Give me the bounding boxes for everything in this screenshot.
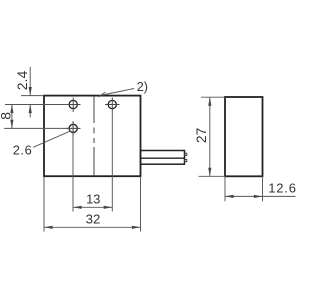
svg-text:2.6: 2.6 <box>13 143 33 158</box>
cable end bump upper <box>185 153 187 155</box>
dashed centerline <box>93 96 95 176</box>
dim 8 arrow down <box>10 120 13 129</box>
extension line row1 <box>5 104 69 106</box>
side view body outline <box>225 97 263 176</box>
dim 13 arrow right <box>104 206 113 209</box>
extension line body left bottom <box>43 176 45 231</box>
dim 32 arrow left <box>44 226 53 229</box>
extension line column1 lower <box>72 121 74 211</box>
hole circle C1 <box>69 100 77 108</box>
extension line body right bottom <box>140 176 142 231</box>
C2 cross <box>66 121 81 135</box>
extension line side bottom-left <box>224 176 226 201</box>
dim 2.4 arrow down <box>29 87 32 96</box>
dim 32 line <box>44 226 141 228</box>
callout 2) leader <box>99 89 135 98</box>
C3 cross <box>105 98 120 112</box>
svg-text:12.6: 12.6 <box>268 181 297 196</box>
dim 8 arrow up <box>10 105 13 114</box>
front view body outline <box>44 96 141 177</box>
dim 8 line <box>11 105 13 129</box>
extension line row2 <box>4 127 69 129</box>
extension line side bottom-right <box>262 176 264 201</box>
svg-text:2): 2) <box>137 80 148 94</box>
dim 2.4 line <box>29 67 31 118</box>
dim 13 arrow left <box>73 206 82 209</box>
dim 12.6 arrow left <box>225 195 234 198</box>
C1 cross <box>66 98 81 113</box>
hole circle C2 <box>69 124 77 132</box>
extension line column2 <box>111 112 113 212</box>
dim 13 line <box>73 206 112 208</box>
cable end bump lower <box>185 159 187 161</box>
dim 2.4 arrow up <box>29 105 32 114</box>
cable mid line <box>141 157 185 159</box>
svg-text:27: 27 <box>194 128 209 143</box>
dim 27 line <box>209 97 211 176</box>
dim 12.6 line <box>225 195 296 197</box>
dim 32 arrow right <box>132 226 141 229</box>
dim 12.6 arrow right <box>254 195 263 198</box>
extension line side top <box>201 96 225 98</box>
svg-text:8: 8 <box>0 112 13 120</box>
extension line side bottom <box>199 175 226 177</box>
svg-text:13: 13 <box>86 192 100 207</box>
leader 2.6 <box>33 131 71 148</box>
extension line top edge left <box>21 95 44 97</box>
cable plug outline <box>141 151 185 165</box>
dim 27 arrow down <box>208 168 211 177</box>
dim 27 arrow up <box>208 97 211 106</box>
hole circle C3 <box>108 100 116 108</box>
svg-text:32: 32 <box>86 212 101 227</box>
svg-text:2.4: 2.4 <box>14 71 30 91</box>
